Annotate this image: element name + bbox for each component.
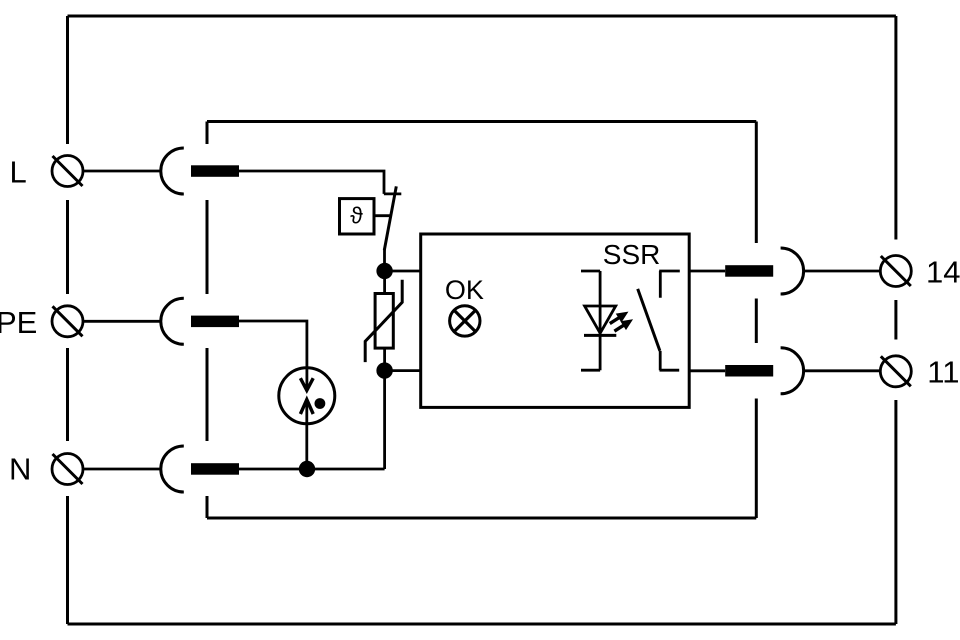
svg-text:OK: OK xyxy=(445,275,484,305)
node B junction dot xyxy=(376,362,392,378)
lamp OK indicator cross xyxy=(454,310,475,331)
optocoupler LED triangle xyxy=(585,306,616,333)
wire PE bar to gas arrester xyxy=(239,321,307,390)
svg-text:N: N xyxy=(9,452,31,487)
terminal L slash xyxy=(53,156,83,186)
terminal PE circle xyxy=(52,306,83,337)
SSR switch bottom contact xyxy=(660,351,680,370)
connector X2-14 socket arc xyxy=(781,248,804,294)
gas discharge tube G1 lower arrowhead xyxy=(300,400,313,414)
gas discharge tube G1 upper arrowhead xyxy=(300,378,313,390)
connector X2-11 pin bar xyxy=(725,365,773,377)
terminal N slash xyxy=(53,454,83,484)
connector X1-PE pin bar xyxy=(191,316,239,328)
svg-text:PE: PE xyxy=(0,305,37,340)
connector X1-L socket arc xyxy=(161,148,184,194)
varistor RV1 diagonal stroke xyxy=(365,280,402,362)
enclosure outline bottom edge xyxy=(68,623,896,626)
wire node A to SSR input xyxy=(385,270,421,273)
wire SSR output 11 xyxy=(689,369,725,372)
enclosure outline top edge xyxy=(68,15,896,18)
module outline top edge xyxy=(207,120,756,123)
lamp OK indicator circle xyxy=(450,306,480,336)
terminal 11 slash xyxy=(881,356,911,386)
svg-text:14: 14 xyxy=(926,255,960,290)
terminal 14 slash xyxy=(881,256,911,286)
connector X2-14 pin bar xyxy=(725,265,773,277)
enclosure outline left edge segments xyxy=(66,16,69,624)
terminal N circle xyxy=(52,454,83,485)
node A junction dot xyxy=(376,263,392,279)
wire PE terminal to connector xyxy=(83,320,161,323)
terminal 14 circle xyxy=(880,256,911,287)
connector X1-L pin bar xyxy=(191,165,239,177)
module outline left edge segments xyxy=(206,122,209,519)
wire node B to N rail xyxy=(383,371,386,469)
wire gas arrester to N rail xyxy=(305,400,308,469)
varistor RV1 body xyxy=(375,294,393,349)
wire node A to varistor xyxy=(383,271,386,294)
wire L bar to thermal switch xyxy=(239,171,384,194)
connector X2-11 socket arc xyxy=(781,348,804,394)
node C junction dot xyxy=(299,461,315,477)
wire connector to terminal 11 xyxy=(804,369,881,372)
terminal PE slash xyxy=(53,306,83,336)
optocoupler LED vertical wire xyxy=(599,271,602,370)
connector X1-PE socket arc xyxy=(161,298,184,344)
thermal switch F1 fixed contact xyxy=(384,192,401,195)
gas discharge tube G1 circle xyxy=(279,368,335,424)
optocoupler light arrow 1 xyxy=(610,313,627,324)
connector X1-N socket arc xyxy=(161,446,184,492)
wire node B to SSR input low xyxy=(385,369,421,372)
wire L terminal to connector xyxy=(83,170,161,173)
wire blade to node A xyxy=(383,249,386,272)
SSR switch top fixed contact xyxy=(659,271,680,298)
optocoupler LED cathode bracket xyxy=(581,369,600,372)
thermal sensor box xyxy=(340,199,375,234)
wire N terminal to connector xyxy=(83,468,161,471)
module outline bottom edge xyxy=(207,517,756,520)
thermal switch F1 blade xyxy=(384,186,396,250)
thermal sensor link xyxy=(374,214,390,217)
svg-text:SSR: SSR xyxy=(603,239,661,270)
module outline right edge segments xyxy=(755,122,758,519)
connector X1-N pin bar xyxy=(191,463,239,475)
gas discharge tube G1 gas dot xyxy=(315,398,326,409)
terminal L circle xyxy=(52,156,83,187)
svg-text:ϑ: ϑ xyxy=(350,203,363,229)
wire varistor to node B xyxy=(383,348,386,371)
optocoupler LED cathode bar xyxy=(584,334,616,337)
enclosure outline right edge segments xyxy=(894,16,897,624)
wire connector to terminal 14 xyxy=(804,270,881,273)
svg-text:11: 11 xyxy=(927,355,959,390)
wire SSR output 14 xyxy=(689,270,725,273)
SSR switch blade xyxy=(638,289,660,351)
optocoupler LED anode bracket xyxy=(581,270,600,273)
SSR module box U1 xyxy=(421,234,690,407)
wire N bar to varistor branch xyxy=(239,468,385,471)
optocoupler light arrow 2 xyxy=(614,320,631,331)
svg-text:L: L xyxy=(10,155,27,190)
terminal 11 circle xyxy=(880,356,911,387)
